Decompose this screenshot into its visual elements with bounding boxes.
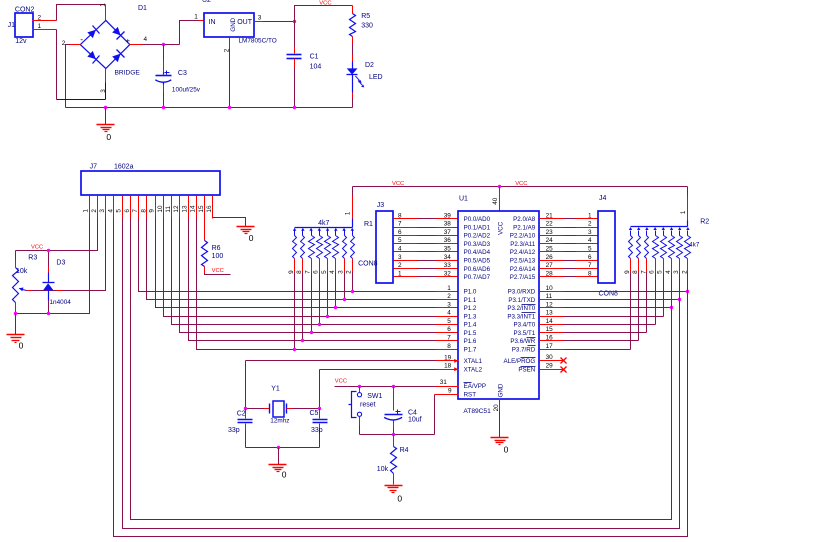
svg-text:3: 3: [99, 209, 106, 213]
svg-text:IN: IN: [209, 19, 216, 26]
svg-text:VCC: VCC: [31, 244, 43, 250]
resistor network R1 4k7: [288, 187, 373, 274]
svg-text:P2.6/A14: P2.6/A14: [510, 266, 536, 273]
svg-text:4: 4: [144, 36, 148, 43]
svg-text:LM7805C/TO: LM7805C/TO: [239, 37, 277, 44]
svg-text:35: 35: [444, 246, 452, 253]
diode D3 1n4004: [43, 251, 72, 314]
wire VCC rail to R5 (top): [295, 6, 353, 22]
svg-text:0: 0: [282, 469, 287, 479]
svg-text:7: 7: [447, 334, 451, 341]
svg-text:25: 25: [546, 246, 554, 253]
svg-text:10: 10: [157, 205, 164, 213]
svg-text:13: 13: [546, 310, 554, 317]
ground symbol 0 (U1): [491, 438, 509, 455]
svg-text:OUT: OUT: [237, 19, 253, 26]
svg-text:0: 0: [106, 132, 111, 142]
svg-text:CON8: CON8: [358, 261, 378, 268]
svg-text:9: 9: [149, 209, 156, 213]
reset VCC rail to EA/VPP: [335, 379, 459, 386]
XTAL2 wire: [320, 363, 459, 409]
svg-text:P3.7/RD: P3.7/RD: [512, 346, 536, 353]
svg-text:P3.5/T1: P3.5/T1: [514, 330, 536, 337]
svg-text:16: 16: [546, 334, 554, 341]
svg-text:U2: U2: [202, 0, 211, 4]
capacitor C1 104: [287, 22, 322, 108]
resistor R4 10k: [377, 435, 409, 485]
PSEN no-connect: [540, 363, 567, 373]
J1 pin 1 stub: [33, 23, 57, 30]
svg-text:11: 11: [546, 293, 553, 300]
power label VCC (rail right): [515, 181, 527, 187]
svg-text:R3: R3: [28, 254, 37, 261]
svg-text:C4: C4: [408, 409, 417, 416]
ALE/PROG no-connect: [540, 354, 567, 363]
svg-text:BRIDGE: BRIDGE: [115, 69, 141, 76]
svg-text:32: 32: [444, 270, 452, 277]
svg-text:XTAL2: XTAL2: [464, 367, 483, 374]
wire LED to ground rail: [352, 93, 354, 108]
svg-text:2: 2: [398, 262, 402, 269]
svg-text:CON2: CON2: [15, 6, 35, 13]
svg-text:10uf: 10uf: [408, 417, 422, 424]
svg-text:P3.6/WR: P3.6/WR: [510, 338, 535, 345]
svg-text:P2.3/A11: P2.3/A11: [510, 241, 536, 248]
connector J4 CON8: [598, 195, 618, 297]
svg-text:6: 6: [649, 270, 656, 274]
svg-text:6: 6: [588, 254, 592, 261]
capacitor C2 33p: [228, 409, 253, 448]
wire U2 output to C1 node: [254, 21, 295, 23]
svg-text:1602a: 1602a: [114, 164, 134, 171]
svg-text:P2.5/A13: P2.5/A13: [510, 258, 536, 265]
svg-text:1: 1: [100, 3, 107, 7]
svg-text:P0.6/AD6: P0.6/AD6: [464, 266, 491, 273]
svg-text:1: 1: [194, 13, 198, 20]
svg-text:12mhz: 12mhz: [270, 418, 289, 425]
svg-text:0: 0: [19, 341, 24, 351]
svg-text:C3: C3: [178, 70, 187, 77]
svg-text:37: 37: [444, 229, 452, 236]
J7 pin stubs and numbers: [83, 196, 213, 219]
svg-text:P0.1/AD1: P0.1/AD1: [464, 224, 491, 231]
svg-text:4k7: 4k7: [689, 242, 700, 249]
svg-text:7: 7: [304, 270, 311, 274]
U2 ground pin wire: [229, 38, 231, 108]
svg-text:100uf/25v: 100uf/25v: [172, 87, 201, 94]
node U1 pin40 junction: [498, 185, 501, 188]
ground rail (power section): [66, 107, 353, 109]
svg-text:AT89C51: AT89C51: [463, 408, 491, 415]
svg-text:P0.4/AD4: P0.4/AD4: [464, 249, 491, 256]
capacitor C3 100uf/25v: [155, 45, 200, 108]
LED D2: [347, 62, 383, 93]
svg-text:D2: D2: [365, 62, 374, 69]
wire RST to U1: [435, 387, 459, 434]
svg-text:15: 15: [198, 205, 205, 213]
svg-text:2: 2: [38, 15, 42, 22]
svg-text:5: 5: [398, 237, 402, 244]
connector J3 CON8: [358, 202, 393, 283]
svg-text:3: 3: [447, 301, 451, 308]
svg-text:4: 4: [107, 209, 114, 213]
svg-text:20: 20: [493, 404, 500, 412]
svg-text:39: 39: [444, 212, 452, 219]
wire J7 pin16 to ground: [213, 218, 246, 227]
svg-text:5: 5: [447, 318, 451, 325]
svg-text:11: 11: [165, 206, 172, 213]
svg-text:5: 5: [116, 209, 123, 213]
U1 GND pin to ground: [493, 399, 500, 438]
svg-text:12: 12: [546, 301, 554, 308]
junction dots crystal: [244, 407, 321, 410]
svg-text:1: 1: [398, 270, 402, 277]
svg-text:1: 1: [588, 212, 592, 219]
svg-text:RST: RST: [464, 391, 477, 398]
svg-text:4: 4: [665, 270, 672, 274]
svg-text:9: 9: [288, 270, 295, 274]
svg-text:4: 4: [588, 237, 592, 244]
svg-text:P2.4/A12: P2.4/A12: [510, 249, 536, 256]
svg-text:P1.1: P1.1: [464, 297, 477, 304]
svg-text:7: 7: [588, 262, 592, 269]
svg-text:Y1: Y1: [271, 385, 280, 392]
wire bridge bottom to J1 pin1 (black return): [57, 30, 106, 100]
svg-text:5: 5: [657, 270, 664, 274]
svg-text:R1: R1: [364, 221, 373, 228]
svg-text:D1: D1: [138, 5, 147, 12]
svg-text:P2.2/A10: P2.2/A10: [510, 233, 536, 240]
svg-text:R6: R6: [212, 245, 221, 252]
node C3 top junction: [162, 43, 165, 46]
wire bridge minus to ground rail: [66, 45, 81, 108]
svg-text:10k: 10k: [377, 466, 389, 473]
svg-text:C5: C5: [310, 410, 319, 417]
svg-text:100: 100: [212, 253, 224, 260]
svg-text:R4: R4: [400, 447, 409, 454]
svg-text:28: 28: [546, 270, 554, 277]
connector J1 CON2: [8, 6, 35, 45]
J1 pin 2 stub: [33, 15, 57, 22]
svg-text:SW1: SW1: [367, 393, 382, 400]
bridge pin 1 stub: [100, 3, 107, 21]
svg-text:6: 6: [124, 209, 131, 213]
svg-text:1: 1: [345, 211, 352, 215]
U1 pin 40 stub: [492, 187, 500, 211]
svg-text:7: 7: [398, 221, 402, 228]
svg-text:R2: R2: [700, 218, 709, 225]
svg-text:2: 2: [588, 221, 592, 228]
crystal ground rail: [246, 446, 320, 449]
capacitor C5 33p: [310, 409, 328, 448]
svg-text:P1.7: P1.7: [464, 346, 477, 353]
XTAL1 wire: [246, 354, 459, 408]
svg-text:4: 4: [447, 310, 451, 317]
svg-text:31: 31: [440, 379, 448, 386]
svg-text:24: 24: [546, 237, 554, 244]
P1 row pin numbers: [447, 285, 451, 350]
svg-text:VCC: VCC: [392, 181, 404, 187]
junction dots pot/diode: [14, 249, 50, 315]
long wire J7 pin6 to P3.2: [131, 219, 672, 520]
svg-text:EA/VPP: EA/VPP: [464, 383, 486, 390]
svg-text:10: 10: [546, 285, 554, 292]
svg-text:6: 6: [447, 326, 451, 333]
svg-text:PSEN: PSEN: [518, 367, 535, 374]
svg-text:-: -: [80, 34, 83, 44]
svg-text:21: 21: [546, 212, 554, 219]
svg-text:1n4004: 1n4004: [50, 299, 72, 306]
svg-text:P0.2/AD2: P0.2/AD2: [464, 233, 491, 240]
svg-text:P0.7/AD7: P0.7/AD7: [464, 274, 491, 281]
svg-text:J3: J3: [377, 202, 385, 209]
long wire J7 pin4 to P3.0: [114, 219, 688, 537]
svg-text:104: 104: [310, 64, 322, 71]
svg-text:15: 15: [546, 326, 554, 333]
P2 row wires U1 to J4: [540, 212, 598, 277]
wire J1 pin2 to bridge top: [57, 5, 106, 21]
svg-text:3: 3: [398, 254, 402, 261]
wire J7 pin3 to pot wiper: [27, 219, 106, 291]
regulator U2 LM7805C/TO: [194, 0, 277, 52]
svg-text:P0.5/AD5: P0.5/AD5: [464, 258, 491, 265]
long wire J7 pin5 to P3.1: [123, 219, 680, 529]
ground symbol 0 (pot): [7, 314, 25, 351]
svg-text:2: 2: [346, 270, 353, 274]
capacitor C4 10uf: [384, 387, 422, 435]
svg-text:17: 17: [546, 343, 554, 350]
power label VCC (rail left): [392, 181, 404, 187]
svg-text:4: 4: [398, 246, 402, 253]
svg-text:1: 1: [83, 209, 90, 213]
svg-text:reset: reset: [360, 402, 376, 409]
svg-text:XTAL1: XTAL1: [464, 358, 483, 365]
connector J7 1602a: [81, 164, 220, 195]
node C1 top junction: [293, 20, 296, 23]
svg-text:P3.3/INT1: P3.3/INT1: [507, 313, 535, 320]
svg-text:27: 27: [546, 262, 554, 269]
power label VCC (R6): [212, 268, 224, 274]
svg-text:P0.0/AD0: P0.0/AD0: [464, 216, 491, 223]
svg-text:P1.6: P1.6: [464, 338, 477, 345]
svg-text:8: 8: [140, 209, 147, 213]
svg-text:8: 8: [398, 212, 402, 219]
svg-text:36: 36: [444, 237, 452, 244]
push button SW1 reset: [349, 387, 383, 435]
ground symbol 0 (power): [97, 108, 115, 142]
svg-text:6: 6: [313, 270, 320, 274]
svg-text:38: 38: [444, 221, 452, 228]
resistor R6 100: [202, 219, 231, 275]
svg-text:30: 30: [546, 354, 554, 361]
svg-text:ALE/PROG: ALE/PROG: [504, 358, 536, 365]
svg-text:33p: 33p: [311, 427, 323, 434]
svg-text:+: +: [126, 36, 131, 45]
svg-text:22: 22: [546, 221, 554, 228]
ground symbol 0 (R4): [385, 486, 403, 504]
power label VCC (top): [319, 0, 331, 6]
svg-text:P2.7/A15: P2.7/A15: [510, 274, 536, 281]
svg-text:P3.0/RXD: P3.0/RXD: [508, 289, 536, 296]
svg-text:8: 8: [588, 270, 592, 277]
svg-text:7: 7: [132, 209, 139, 213]
reset bottom rail: [360, 433, 435, 436]
svg-text:5: 5: [321, 270, 328, 274]
crystal Y1 12mhz: [246, 385, 320, 424]
wire J7 pin2 to pot VCC rail: [16, 219, 98, 251]
svg-text:P1.5: P1.5: [464, 330, 477, 337]
svg-text:VCC: VCC: [319, 0, 331, 6]
svg-text:VCC: VCC: [515, 181, 527, 187]
potentiometer R3 10k: [13, 251, 38, 314]
svg-text:13: 13: [181, 205, 188, 213]
svg-text:330: 330: [361, 23, 373, 30]
svg-text:3: 3: [588, 229, 592, 236]
svg-text:P3.4/T0: P3.4/T0: [514, 322, 536, 329]
svg-text:33p: 33p: [228, 427, 240, 434]
svg-text:P0.3/AD3: P0.3/AD3: [464, 241, 491, 248]
svg-text:C2: C2: [237, 411, 246, 418]
svg-text:J1: J1: [8, 22, 16, 29]
svg-text:LED: LED: [369, 74, 383, 81]
svg-text:26: 26: [546, 254, 554, 261]
svg-text:J4: J4: [599, 195, 607, 202]
svg-text:6: 6: [398, 229, 402, 236]
svg-text:1: 1: [447, 285, 451, 292]
svg-text:4k7: 4k7: [318, 220, 329, 227]
J3 pin stubs and wires to P0: [394, 212, 459, 277]
svg-text:VCC: VCC: [212, 268, 224, 274]
svg-text:19: 19: [444, 354, 452, 361]
IC U1 AT89C51: [454, 195, 539, 415]
R1 column wires to P1 rows: [293, 273, 354, 352]
svg-text:J7: J7: [90, 164, 98, 171]
resistor R5 330: [350, 6, 373, 62]
svg-text:29: 29: [546, 363, 554, 370]
wire bridge plus to regulator input: [130, 21, 205, 45]
junction dots on ground rail: [104, 106, 296, 109]
bridge rectifier D1: [62, 5, 148, 93]
svg-text:P1.3: P1.3: [464, 313, 477, 320]
resistor network R2 4k7: [624, 187, 709, 274]
svg-text:3: 3: [337, 270, 344, 274]
svg-text:14: 14: [190, 205, 197, 213]
svg-text:P3.1/TXD: P3.1/TXD: [508, 297, 535, 304]
svg-text:9: 9: [624, 270, 631, 274]
svg-text:R5: R5: [361, 13, 370, 20]
power label VCC (pot): [31, 244, 43, 250]
svg-text:12: 12: [173, 205, 180, 213]
svg-text:GND: GND: [230, 17, 237, 31]
svg-text:1: 1: [38, 23, 42, 30]
svg-text:P2.1/A9: P2.1/A9: [513, 224, 536, 231]
power label VCC (reset): [335, 378, 347, 384]
svg-text:VCC: VCC: [498, 221, 505, 235]
svg-text:P1.4: P1.4: [464, 322, 477, 329]
svg-text:8: 8: [447, 343, 451, 350]
svg-text:2: 2: [91, 209, 98, 213]
wire J7 pin1 to pot ground rail: [16, 219, 90, 314]
svg-text:D3: D3: [56, 260, 65, 267]
svg-text:0: 0: [504, 444, 509, 454]
wires J7 data pins to P1 rows: [139, 219, 436, 350]
svg-text:P3.2/INT0: P3.2/INT0: [507, 305, 535, 312]
svg-text:12v: 12v: [15, 38, 27, 45]
svg-text:P2.0/A8: P2.0/A8: [513, 216, 536, 223]
svg-text:3: 3: [258, 14, 262, 21]
ground symbol 0 (J7 pin16): [237, 227, 255, 244]
svg-text:0: 0: [249, 233, 254, 243]
svg-text:VCC: VCC: [335, 378, 347, 384]
P1 row stubs at U1: [436, 292, 459, 350]
svg-text:9: 9: [448, 387, 452, 394]
svg-text:34: 34: [444, 254, 452, 261]
svg-text:0: 0: [397, 493, 402, 503]
svg-text:18: 18: [444, 363, 452, 370]
svg-text:23: 23: [546, 229, 554, 236]
svg-text:GND: GND: [498, 383, 505, 397]
R2 column wires to P3 rows: [631, 273, 688, 537]
svg-text:2: 2: [447, 293, 451, 300]
VCC rail above U1: [353, 186, 688, 188]
ground symbol 0 (crystal): [269, 448, 287, 480]
svg-text:1: 1: [680, 210, 687, 214]
svg-text:33: 33: [444, 262, 452, 269]
svg-text:40: 40: [492, 197, 499, 205]
P3 row wires and numbers: [540, 285, 690, 350]
svg-text:P1.0: P1.0: [464, 289, 477, 296]
bridge pin 3 stub: [105, 69, 107, 100]
svg-text:5: 5: [588, 246, 592, 253]
svg-text:16: 16: [206, 205, 213, 213]
svg-text:P1.2: P1.2: [464, 305, 477, 312]
svg-text:14: 14: [546, 318, 554, 325]
svg-text:U1: U1: [459, 195, 468, 202]
svg-text:10k: 10k: [16, 268, 28, 275]
svg-text:C1: C1: [310, 54, 319, 61]
